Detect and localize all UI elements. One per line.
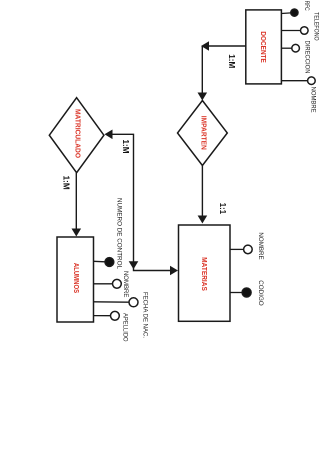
svg-text:RFC: RFC <box>303 1 310 11</box>
svg-text:ALUMNOS: ALUMNOS <box>72 263 79 293</box>
svg-text:NOMBRE: NOMBRE <box>122 271 129 298</box>
svg-text:1:1: 1:1 <box>218 203 227 215</box>
svg-text:NOMBRE: NOMBRE <box>257 232 264 259</box>
svg-text:MATERIAS: MATERIAS <box>200 257 207 291</box>
svg-text:CODIGO: CODIGO <box>257 280 264 306</box>
svg-text:1:M: 1:M <box>227 54 236 68</box>
svg-text:NOMBRE: NOMBRE <box>309 87 316 113</box>
svg-text:IMPARTEN: IMPARTEN <box>199 116 206 150</box>
svg-text:1:M: 1:M <box>62 176 71 190</box>
svg-text:NUMERO DE CONTROL: NUMERO DE CONTROL <box>116 198 123 270</box>
svg-text:TELEFONO: TELEFONO <box>312 12 319 41</box>
svg-text:FECHA DE NAC.: FECHA DE NAC. <box>142 292 149 338</box>
svg-text:DOCENTE: DOCENTE <box>259 31 266 63</box>
svg-text:1:M: 1:M <box>121 140 130 154</box>
svg-text:APELLIDO: APELLIDO <box>122 313 129 342</box>
svg-text:DIRECCION: DIRECCION <box>304 41 311 74</box>
svg-text:MATRICULADO: MATRICULADO <box>74 109 81 159</box>
